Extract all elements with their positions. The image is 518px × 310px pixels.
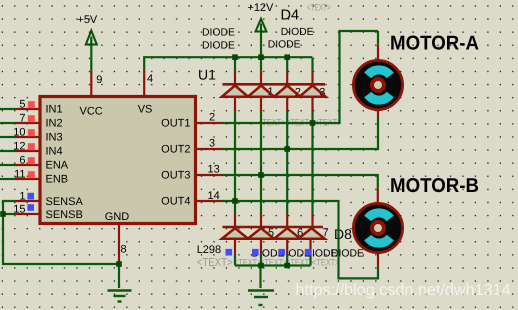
svg-text:IN3: IN3 <box>46 132 63 144</box>
svg-text:DIODE: DIODE <box>268 39 301 50</box>
svg-text:+12V: +12V <box>247 2 274 14</box>
svg-text:2: 2 <box>209 111 215 123</box>
svg-text:OUT2: OUT2 <box>161 144 190 156</box>
svg-text:8: 8 <box>121 244 127 256</box>
svg-text:L298: L298 <box>197 244 221 256</box>
svg-text:DIODE: DIODE <box>202 28 235 39</box>
svg-text:7: 7 <box>19 113 25 125</box>
svg-text:DIODE: DIODE <box>202 40 235 51</box>
svg-text:13: 13 <box>208 164 220 176</box>
svg-text:12: 12 <box>13 141 25 153</box>
svg-text:SENSA: SENSA <box>46 196 84 208</box>
svg-text:SENSB: SENSB <box>46 209 83 221</box>
svg-text:11: 11 <box>14 169 25 181</box>
svg-text:1: 1 <box>19 191 25 203</box>
svg-text:IN1: IN1 <box>46 104 63 116</box>
svg-text:+5V: +5V <box>77 14 98 26</box>
svg-text:ENA: ENA <box>46 160 69 172</box>
svg-text:6: 6 <box>19 155 25 167</box>
svg-text:OUT1: OUT1 <box>161 118 190 130</box>
svg-text:15: 15 <box>13 204 25 216</box>
svg-text:<TEXT>: <TEXT> <box>307 3 331 14</box>
svg-text:GND: GND <box>105 211 130 223</box>
svg-text:ENB: ENB <box>46 174 69 186</box>
svg-text:MOTOR-B: MOTOR-B <box>390 175 479 197</box>
svg-text:VS: VS <box>138 103 153 115</box>
svg-text:IN2: IN2 <box>46 118 63 130</box>
svg-text:MOTOR-A: MOTOR-A <box>390 33 479 55</box>
svg-text:5: 5 <box>19 99 25 111</box>
svg-text:14: 14 <box>208 190 220 202</box>
svg-text:D4: D4 <box>281 7 300 23</box>
svg-text:U1: U1 <box>198 67 216 83</box>
svg-text:DIODE: DIODE <box>281 27 314 38</box>
svg-text:OUT3: OUT3 <box>161 170 190 182</box>
svg-text:<TEXT>: <TEXT> <box>197 257 233 269</box>
svg-text:OUT4: OUT4 <box>161 196 190 208</box>
svg-text:https://blog.csdn.net/dwh1314: https://blog.csdn.net/dwh1314 <box>296 281 511 299</box>
svg-text:DIODE: DIODE <box>331 248 364 259</box>
svg-text:D8: D8 <box>334 226 352 242</box>
svg-text:9: 9 <box>96 74 102 86</box>
svg-text:IN4: IN4 <box>46 146 63 158</box>
svg-text:10: 10 <box>13 127 25 139</box>
svg-text:VCC: VCC <box>80 106 103 118</box>
svg-text:4: 4 <box>147 73 153 85</box>
svg-text:3: 3 <box>209 137 215 149</box>
